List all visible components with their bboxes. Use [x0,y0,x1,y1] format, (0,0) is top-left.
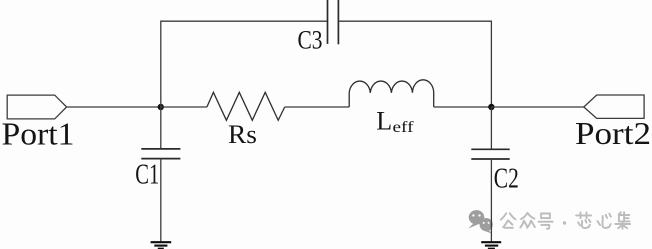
wire C2 to ground G2 [490,159,492,242]
wire C3 right plate along top rail down to node J2 [338,21,491,107]
node J1 junction dot [158,104,164,110]
svg-text:Port2: Port2 [575,116,651,151]
ground G1 [151,242,172,249]
inductor Leff [349,80,434,107]
wire J1 up and top rail to C3 left plate [161,21,327,107]
capacitor C1 [141,149,180,159]
svg-text:Port1: Port1 [2,116,75,151]
svg-text:L: L [376,107,392,136]
watermark text "公众号 · 芯心集" drawn as strokes [501,212,630,229]
svg-text:C1: C1 [135,159,159,190]
wire Rs to inductor Leff [285,106,350,108]
wire J1 down to C1 [160,107,162,149]
resistor Rs [207,92,285,120]
wire J1 to resistor Rs [161,106,207,108]
svg-text:C2: C2 [494,164,519,195]
svg-text:C3: C3 [298,26,323,55]
port symbol Port2 [584,95,644,118]
wire Leff to node J2 [434,106,492,108]
label Leff [376,107,414,136]
wire J2 to Port2 [491,106,583,108]
wire Port1 to node J1 [67,106,161,108]
svg-text:eff: eff [393,119,415,136]
svg-text:Rs: Rs [228,120,257,149]
capacitor C2 [471,149,509,159]
ground G2 [481,242,501,249]
capacitor C3 [328,0,339,44]
wire C1 to ground G1 [160,159,162,242]
wire J2 down to C2 [490,107,492,149]
watermark logo (WeChat) [468,210,493,234]
port symbol Port1 [7,95,66,119]
node J2 junction dot [488,104,494,110]
